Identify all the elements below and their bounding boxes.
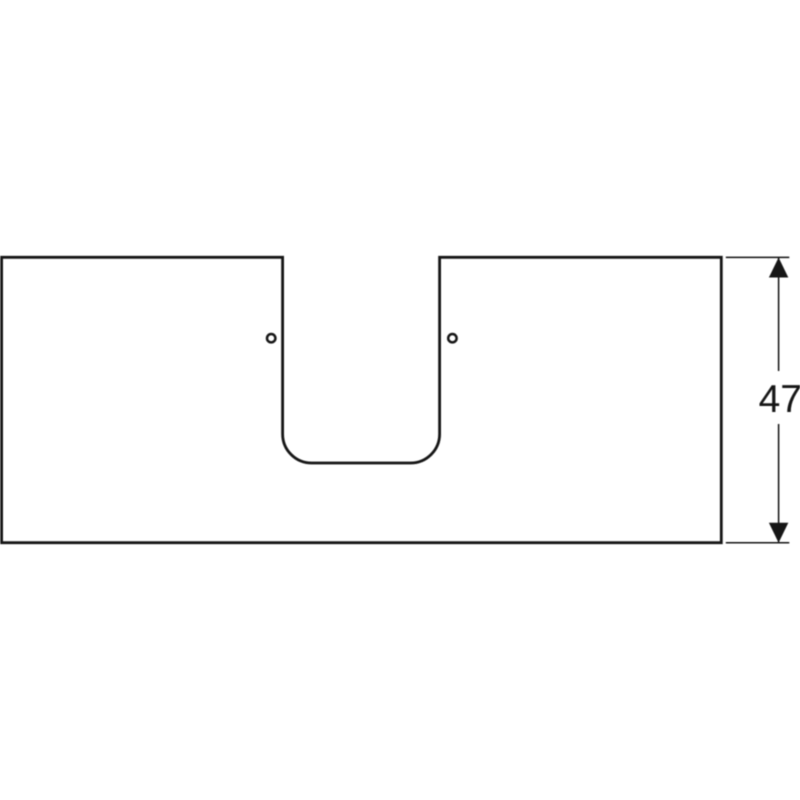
svg-text:47: 47 <box>759 378 800 421</box>
countertop outline with U-cutout <box>2 257 722 542</box>
arrowhead down <box>769 523 788 543</box>
hole right <box>448 334 456 342</box>
dimension line upper segment <box>778 258 780 371</box>
extension line bottom <box>726 542 790 544</box>
extension line top <box>726 256 790 258</box>
dimension line lower segment <box>778 424 780 542</box>
arrowhead up <box>769 258 788 278</box>
hole left <box>267 334 275 342</box>
